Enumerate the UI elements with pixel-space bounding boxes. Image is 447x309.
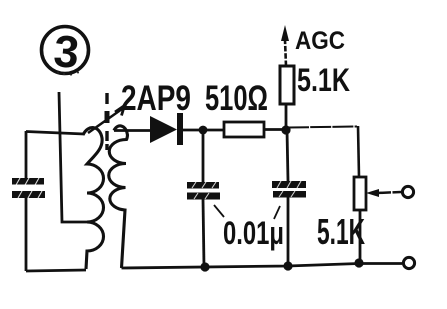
transformer T1 core (dashed) (105, 93, 108, 150)
wire top of tank (26, 132, 84, 135)
transformer T1 primary winding (83, 128, 104, 269)
svg-text:0.01μ: 0.01μ (223, 215, 284, 251)
wire secondary to diode (114, 129, 150, 132)
terminal output top (402, 186, 413, 197)
svg-text:AGC: AGC (295, 27, 345, 55)
node B junction dot (281, 125, 290, 134)
wire AGC lead (285, 40, 286, 66)
svg-text:5.1K: 5.1K (317, 211, 365, 252)
hatch texture on C1 (192, 182, 216, 199)
capacitor tuning cap (left tank) (12, 178, 45, 198)
resistor R1 510ohm (224, 122, 264, 137)
wire resistor to node B (264, 128, 286, 131)
node A junction dot (199, 126, 208, 135)
specks below node 3 circle (57, 71, 79, 75)
resistor R2 5.1K (AGC) (280, 66, 294, 104)
terminal output bottom (403, 257, 414, 268)
hatch texture on tuning cap (16, 178, 42, 198)
wire node B down to C2 (287, 130, 288, 181)
node 3 callout circle (42, 27, 89, 74)
wire node B to AGC resistor (285, 104, 288, 130)
svg-text:5.1K: 5.1K (297, 62, 350, 98)
hatch texture on C2 (277, 181, 301, 197)
wire diode to node A (183, 129, 203, 132)
wire node A to resistor (203, 129, 224, 132)
capacitor C1 0.01u (187, 182, 220, 200)
wire input stub from previous stage (59, 92, 87, 222)
wire ground rail (122, 264, 403, 269)
svg-text:3: 3 (52, 25, 81, 78)
wire node B to pot corner (288, 127, 357, 128)
pot wiper arrow (366, 189, 401, 197)
wire cap bottom to rail (25, 198, 28, 271)
wire node A down to C1 (202, 130, 205, 182)
scratch tick near C2 (274, 206, 280, 219)
transformer T1 tuning arrow (88, 106, 125, 134)
junction dot C1-rail (200, 262, 209, 271)
junction dot C2-rail (283, 261, 292, 270)
potentiometer R3 5.1K (354, 177, 366, 210)
wire C2 to rail (287, 198, 290, 267)
diode D 2AP9 (150, 113, 183, 145)
capacitor C2 0.01u (272, 181, 306, 198)
transformer T1 secondary winding (109, 126, 128, 268)
wire pot bottom to rail (359, 210, 362, 263)
wire left vertical to cap (25, 131, 28, 179)
wire bottom of tank loop (26, 270, 86, 271)
svg-text:510Ω: 510Ω (205, 79, 268, 118)
scratch tick near C1 (214, 205, 224, 217)
wire C1 to rail (203, 199, 204, 267)
AGC arrowhead (281, 25, 289, 41)
junction dot pot-rail (354, 258, 363, 267)
svg-text:2AP9: 2AP9 (121, 79, 191, 118)
